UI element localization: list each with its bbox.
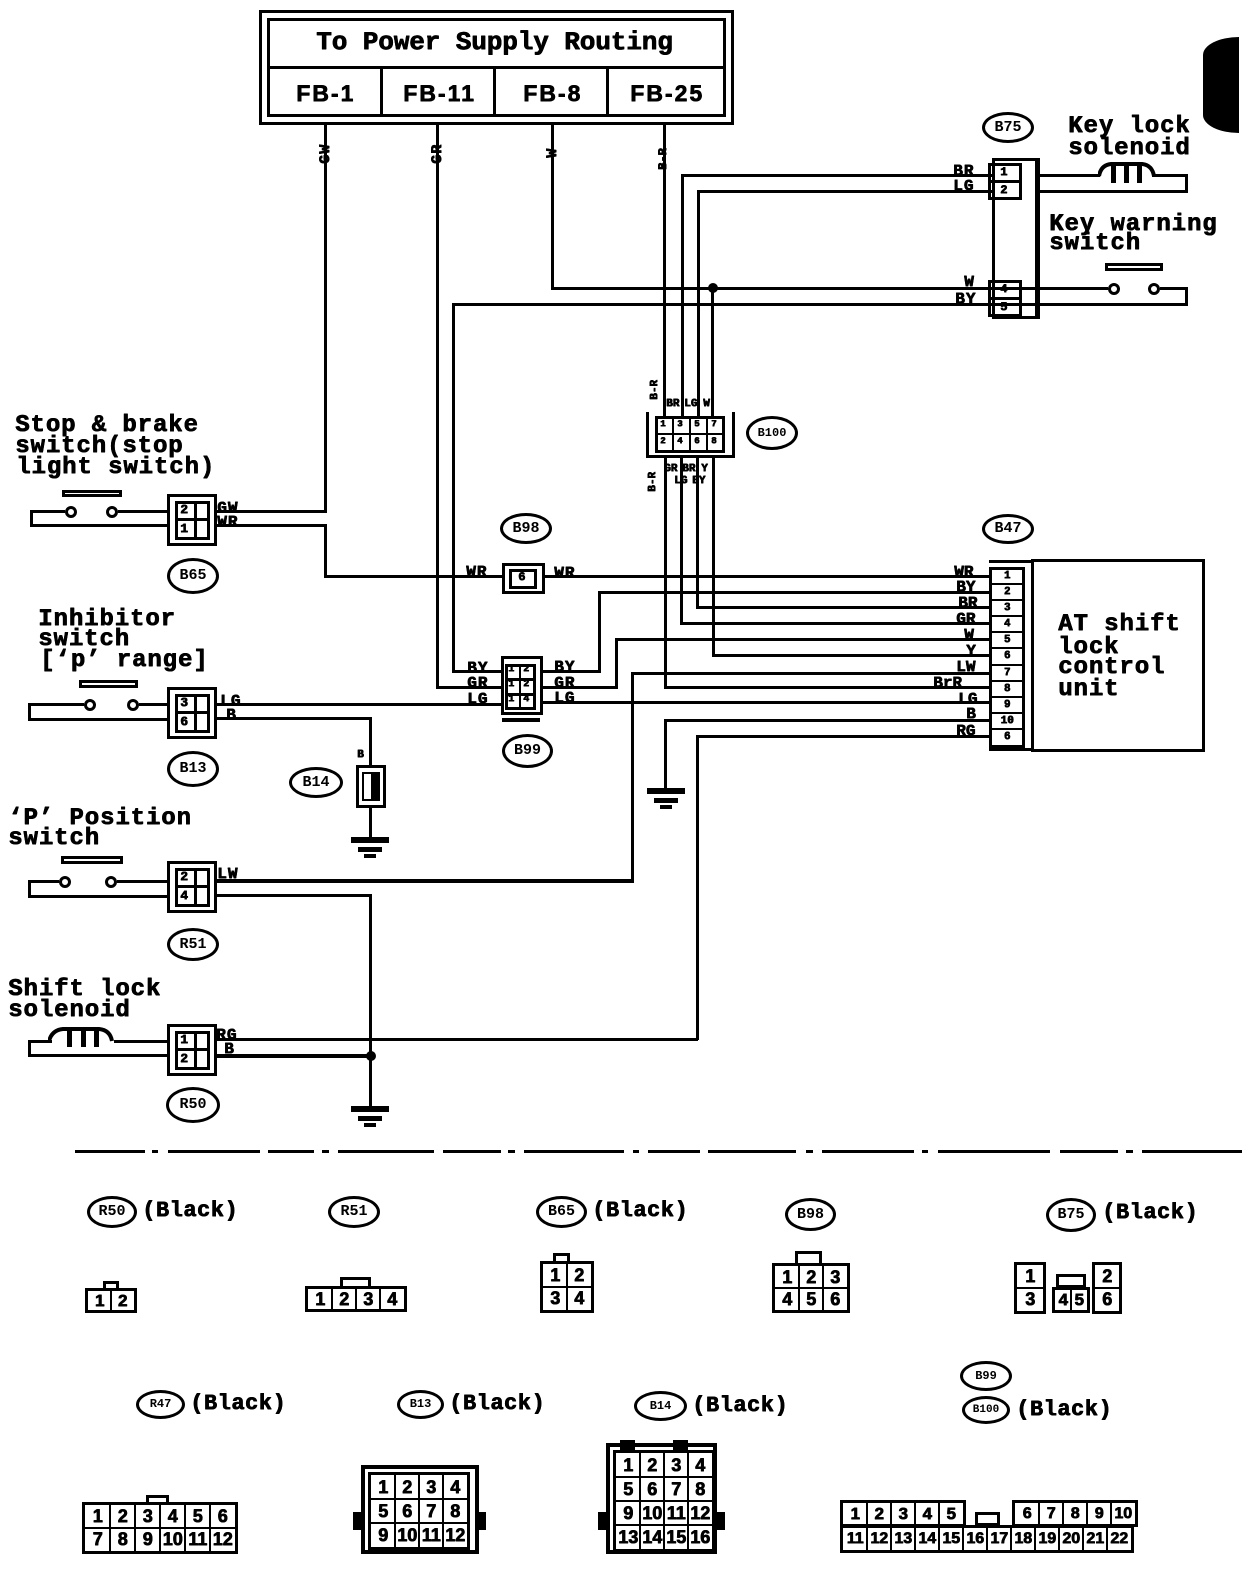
pin labels B47 <box>954 564 973 581</box>
P position switch <box>8 806 192 831</box>
wire WR to B98 <box>217 524 327 527</box>
connector view B65 <box>536 1196 587 1228</box>
junction <box>366 1051 376 1061</box>
connector B100 <box>646 412 649 458</box>
labels below B100 <box>648 472 660 492</box>
wire BY B99 to B47 <box>543 670 600 673</box>
label LW <box>217 866 238 883</box>
wire Y B100 to B47 <box>712 458 715 657</box>
wire W branch to B100 <box>711 288 714 416</box>
ground <box>351 1106 389 1112</box>
key warning switch <box>1049 212 1217 237</box>
label WR <box>217 514 238 531</box>
wire B to ground <box>217 1054 372 1058</box>
shift lock solenoid <box>8 977 161 1002</box>
separator line <box>75 1150 145 1153</box>
connector view B100 <box>962 1396 1010 1424</box>
wire W from FB-8 <box>551 125 554 290</box>
AT shift lock control unit <box>1031 559 1205 752</box>
connector R51 <box>167 861 217 913</box>
diode B14 <box>289 767 343 798</box>
wire B to B14 <box>217 717 372 720</box>
key lock solenoid <box>1068 114 1190 139</box>
label GW <box>217 500 238 517</box>
label WR <box>466 564 487 581</box>
connector view B99 <box>960 1361 1012 1391</box>
label BR pin1 <box>953 163 974 180</box>
wire GW from FB-1 <box>324 125 327 513</box>
fuse FB-8 <box>523 81 582 105</box>
wire BR B75 pin1 <box>681 174 992 177</box>
label LG <box>467 691 488 708</box>
label WR <box>554 565 575 582</box>
label B <box>224 1041 235 1058</box>
wire BY B75 pin5 <box>453 303 1040 306</box>
label LG pin2 <box>953 178 974 195</box>
stop and brake switch (stop light switch) <box>15 413 199 438</box>
ground <box>647 788 685 794</box>
wire GR from FB-11 <box>436 125 439 689</box>
label GR <box>467 675 488 692</box>
label RG <box>216 1027 237 1044</box>
ground <box>369 808 372 838</box>
page mark semicircle <box>1203 37 1239 133</box>
wire LG inhibitor to B99 <box>217 703 502 706</box>
connector view B75 <box>1046 1198 1096 1232</box>
wire BR B100 to B47 <box>696 458 699 609</box>
label LG <box>554 690 575 707</box>
connector R50 <box>167 1024 217 1076</box>
connector B13 <box>167 687 217 739</box>
label W pin4 <box>964 274 975 291</box>
connector B47 <box>982 514 1034 544</box>
connector view R51 <box>328 1196 380 1228</box>
wire BrR B100 to B47 <box>664 458 667 688</box>
power supply routing box <box>259 10 734 125</box>
labels above B100 <box>650 380 662 400</box>
wire B-R from FB-25 <box>663 125 666 417</box>
label B <box>226 707 237 724</box>
inhibitor switch (p range) <box>38 607 176 632</box>
wire B to ground <box>664 719 990 722</box>
connector view B14 <box>634 1391 687 1421</box>
wire BY into B99 <box>452 670 502 673</box>
connector B99 <box>501 656 543 715</box>
connector view B13 <box>397 1390 444 1419</box>
label GR <box>554 675 575 692</box>
label BY <box>554 659 575 676</box>
fuse FB-1 <box>296 81 355 105</box>
wire GR B100 to B47 <box>680 458 683 625</box>
connector view R47 <box>136 1390 185 1419</box>
wire GR into B99 <box>436 686 502 689</box>
wire GR B99 to B47 <box>543 686 617 689</box>
fuse FB-25 <box>630 81 704 105</box>
connector view R50 <box>87 1196 137 1228</box>
wire WR B98 to B47 <box>545 575 990 578</box>
junction <box>708 283 718 293</box>
wire LG B75 pin2 <box>697 190 992 193</box>
wire W B75 pin4 <box>552 287 1040 290</box>
wire RG to B47 <box>217 1038 698 1041</box>
wire LW to B47 <box>217 879 634 883</box>
label LG <box>220 693 241 710</box>
wire GW <box>217 510 327 513</box>
connector B65 <box>167 494 217 546</box>
connector B98 <box>500 513 552 544</box>
fuse FB-11 <box>403 81 476 105</box>
wire LG B99 to B47 <box>543 701 990 704</box>
connector view B98 <box>785 1198 836 1231</box>
label BY <box>467 660 488 677</box>
connector B75 <box>982 112 1034 143</box>
label BY pin5 <box>955 291 976 308</box>
wire B of P switch <box>217 894 372 897</box>
